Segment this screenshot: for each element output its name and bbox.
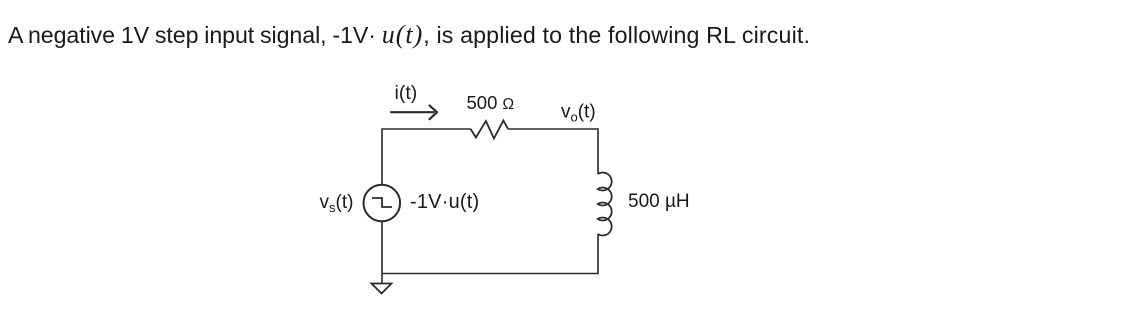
wire: top-left segment from left corner to resistor [382,129,471,185]
svg-text:vs(t): vs(t) [320,192,354,215]
current arrow i(t) [390,111,434,113]
svg-text:i(t): i(t) [395,82,418,104]
resistor R 500 ohm zigzag [471,121,509,139]
inductor L 500 uH coil [598,173,612,236]
wire: bottom stub from source to bottom wire and ground [381,221,383,283]
voltage source V1 circle [364,185,401,222]
problem statement text [8,19,810,51]
svg-text:-1V·u(t): -1V·u(t) [410,191,479,213]
svg-text:500 Ω: 500 Ω [467,92,515,113]
wire: top-right segment from resistor to top-right corner and down to inductor [508,129,598,174]
step waveform symbol inside source [372,198,392,207]
wire: right-bottom segment from inductor to bottom-right corner [382,234,599,274]
ground symbol [372,284,392,294]
svg-text:500 µH: 500 µH [628,191,690,212]
svg-text:vo(t): vo(t) [561,102,596,125]
